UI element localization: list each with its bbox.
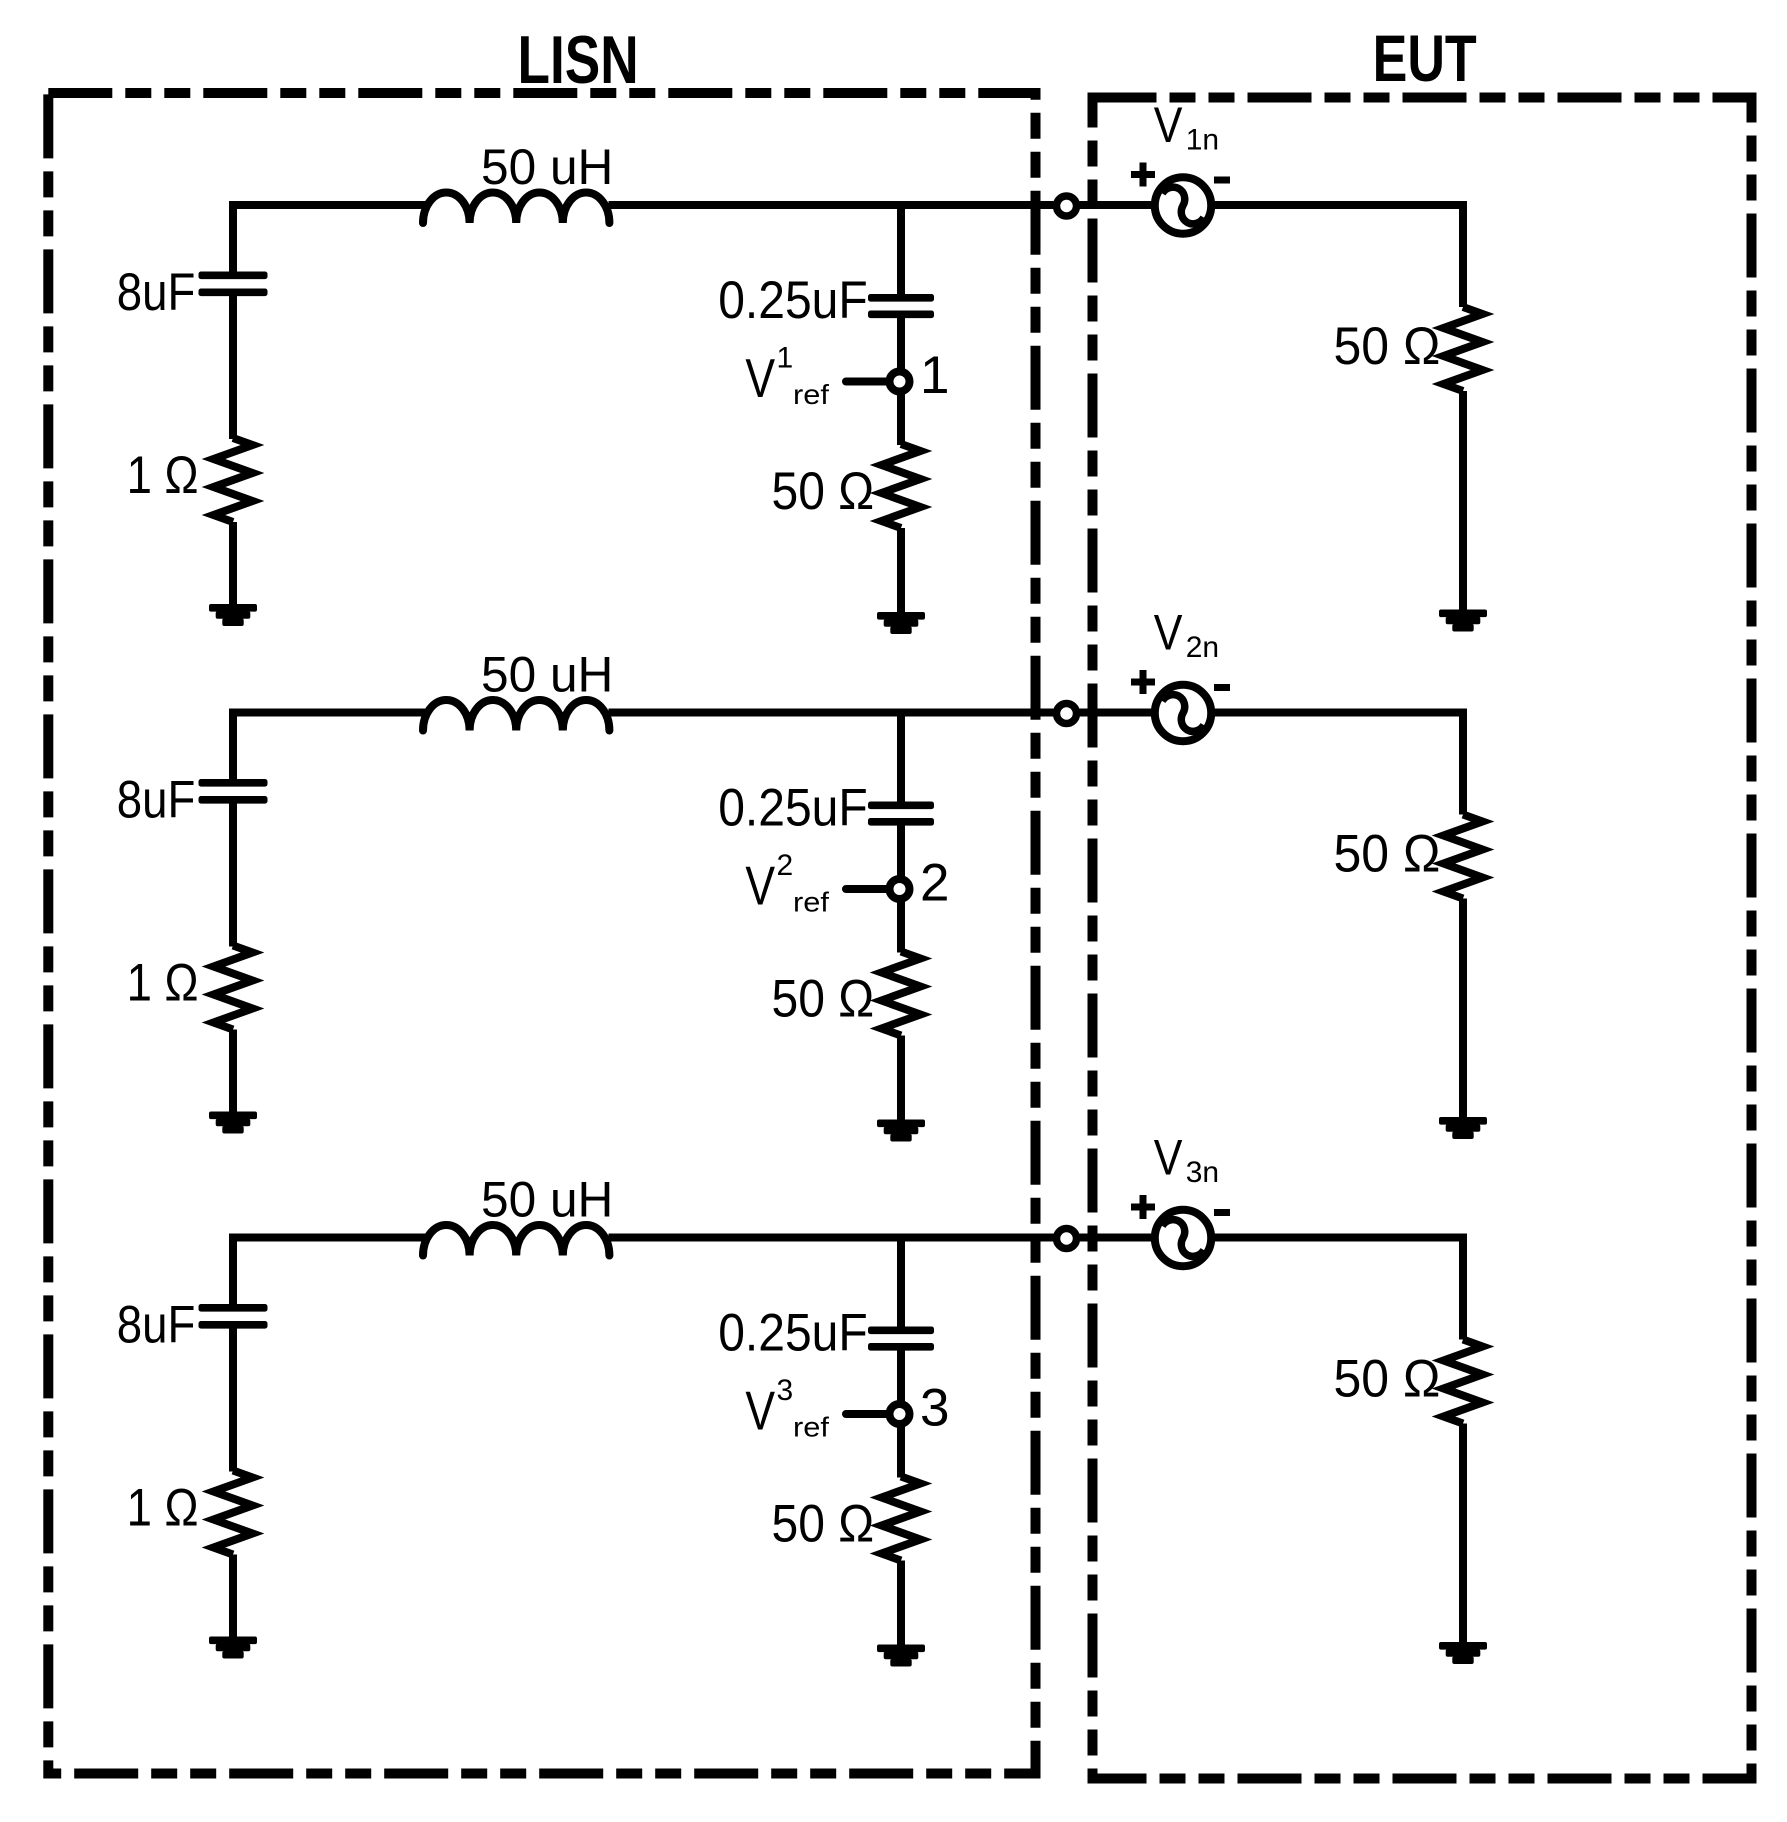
- sine symbol inside source V_3n: [1156, 1215, 1210, 1261]
- ground (left branch, row 2): [209, 1112, 257, 1120]
- resistor 50 Ohm (measurement port, row 1): [882, 444, 921, 528]
- svg-text:2: 2: [777, 849, 794, 882]
- svg-text:50 uH: 50 uH: [481, 646, 613, 702]
- wire row1: 0.25uF capacitor to measurement node: [897, 316, 905, 370]
- svg-text:V: V: [1154, 1129, 1183, 1185]
- resistor 50 Ohm (measurement port, row 3): [882, 1477, 921, 1561]
- wire row1: 1 Ohm resistor to ground: [229, 522, 237, 606]
- svg-text:V: V: [745, 855, 775, 917]
- wire: V3ref tap lead (row 3): [846, 1410, 887, 1418]
- wire row1: middle branch down to 0.25uF capacitor: [897, 201, 905, 296]
- LISN enclosure dashed box: [48, 93, 1035, 1774]
- wire row2: 8uF capacitor to 1 Ohm resistor: [229, 802, 237, 947]
- wire row3: 1 Ohm resistor to ground: [229, 1555, 237, 1639]
- svg-text:8uF: 8uF: [117, 770, 196, 829]
- svg-text:50 Ω: 50 Ω: [772, 968, 875, 1028]
- label + (source positive terminal): [1140, 163, 1147, 187]
- svg-text:50 Ω: 50 Ω: [1334, 1348, 1441, 1408]
- svg-text:V: V: [1154, 97, 1183, 153]
- svg-text:1n: 1n: [1186, 124, 1219, 157]
- svg-text:1: 1: [777, 342, 794, 375]
- resistor 50 Ohm (EUT load, row 2): [1444, 815, 1483, 899]
- ground (EUT side, row 3): [1439, 1642, 1487, 1650]
- wire row2: terminal to noise source: [1080, 709, 1156, 717]
- wire row3: middle branch down to 0.25uF capacitor: [897, 1234, 905, 1329]
- capacitor 8uF (row 2): [199, 779, 268, 787]
- svg-text:0.25uF: 0.25uF: [718, 270, 867, 330]
- svg-text:EUT: EUT: [1373, 21, 1477, 95]
- svg-text:50 uH: 50 uH: [481, 1171, 613, 1227]
- svg-text:3: 3: [777, 1374, 794, 1407]
- wire row3: 0.25uF capacitor to measurement node: [897, 1349, 905, 1403]
- capacitor 0.25uF (row 3): [868, 1327, 934, 1335]
- label - (source negative terminal): [1214, 1209, 1230, 1216]
- svg-text:3n: 3n: [1186, 1156, 1219, 1189]
- wire row1: phase conductor, left segment to inductor: [229, 201, 427, 209]
- wire: V2ref tap lead (row 2): [846, 885, 887, 893]
- wire row2: middle branch down to 0.25uF capacitor: [897, 709, 905, 804]
- label - (source negative terminal): [1214, 177, 1230, 184]
- svg-text:3: 3: [920, 1379, 949, 1438]
- resistor 50 Ohm (EUT load, row 3): [1444, 1340, 1483, 1424]
- wire row1: source to EUT load corner and down: [1211, 205, 1463, 307]
- svg-text:0.25uF: 0.25uF: [718, 777, 867, 837]
- resistor 1 Ohm (row 2): [214, 946, 253, 1030]
- EUT enclosure dashed box: [1093, 98, 1752, 1779]
- svg-text:V: V: [745, 348, 775, 410]
- wire row3: 50 Ohm resistor to ground: [897, 1561, 905, 1647]
- source V_1n (AC noise source circle): [1155, 177, 1211, 233]
- inductor L2 50 uH: [423, 700, 609, 731]
- svg-text:50 Ω: 50 Ω: [1334, 823, 1441, 883]
- source V_3n (AC noise source circle): [1155, 1210, 1211, 1266]
- capacitor 8uF (row 1): [199, 272, 268, 280]
- wire row3: phase conductor from inductor to LISN terminal: [609, 1234, 1054, 1242]
- ground (middle branch, row 1): [877, 612, 925, 620]
- inductor L3 50 uH: [423, 1225, 609, 1256]
- wire row3: phase conductor, left segment to inductor: [229, 1234, 427, 1242]
- svg-text:2n: 2n: [1186, 631, 1219, 664]
- resistor 50 Ohm (EUT load, row 1): [1444, 307, 1483, 391]
- wire row1: 50 Ohm resistor to ground: [897, 528, 905, 614]
- ground (left branch, row 1): [209, 604, 257, 612]
- resistor 1 Ohm (row 3): [214, 1471, 253, 1555]
- label - (source negative terminal): [1214, 684, 1230, 691]
- wire row1: EUT load to ground: [1459, 391, 1467, 611]
- ground (left branch, row 3): [209, 1637, 257, 1645]
- resistor 1 Ohm (row 1): [214, 438, 253, 522]
- svg-text:ref: ref: [793, 887, 830, 918]
- svg-text:0.25uF: 0.25uF: [718, 1302, 867, 1362]
- wire row3: EUT load to ground: [1459, 1424, 1467, 1644]
- svg-text:8uF: 8uF: [117, 1295, 196, 1354]
- svg-text:ref: ref: [793, 379, 830, 410]
- label + (source positive terminal): [1140, 1195, 1147, 1219]
- wire row1: left branch down to 8uF capacitor: [229, 201, 237, 273]
- inductor L1 50 uH: [423, 192, 609, 223]
- ground (EUT side, row 2): [1439, 1117, 1487, 1125]
- terminal node (open circle) at LISN/EUT interface, row 2: [1057, 704, 1077, 724]
- svg-text:2: 2: [920, 854, 949, 913]
- svg-text:1 Ω: 1 Ω: [127, 953, 199, 1012]
- terminal node (open circle) at LISN/EUT interface, row 3: [1057, 1229, 1077, 1249]
- resistor 50 Ohm (measurement port, row 2): [882, 952, 921, 1036]
- wire row3: 8uF capacitor to 1 Ohm resistor: [229, 1327, 237, 1472]
- svg-text:LISN: LISN: [518, 22, 639, 98]
- svg-text:8uF: 8uF: [117, 263, 196, 322]
- svg-text:50 Ω: 50 Ω: [1334, 316, 1441, 376]
- capacitor 0.25uF (row 1): [868, 294, 934, 302]
- svg-text:50 uH: 50 uH: [481, 139, 613, 195]
- source V_2n (AC noise source circle): [1155, 685, 1211, 741]
- capacitor 8uF (row 3): [199, 1304, 268, 1312]
- wire row2: phase conductor from inductor to LISN terminal: [609, 709, 1054, 717]
- wire row1: 8uF capacitor to 1 Ohm resistor: [229, 294, 237, 439]
- sine symbol inside source V_1n: [1156, 183, 1210, 229]
- capacitor 0.25uF (row 2): [868, 802, 934, 810]
- terminal node (open circle) at LISN/EUT interface, row 1: [1057, 196, 1077, 216]
- wire row2: measurement node to 50 Ohm resistor: [897, 901, 905, 953]
- wire row2: EUT load to ground: [1459, 899, 1467, 1119]
- label + (source positive terminal): [1140, 670, 1147, 694]
- wire row1: measurement node to 50 Ohm resistor: [897, 393, 905, 445]
- wire: V1ref tap lead (row 1): [846, 378, 887, 386]
- svg-text:1 Ω: 1 Ω: [127, 446, 199, 505]
- svg-text:50 Ω: 50 Ω: [772, 1493, 875, 1553]
- wire row3: source to EUT load corner and down: [1211, 1238, 1463, 1340]
- ground (EUT side, row 1): [1439, 610, 1487, 618]
- wire row2: 1 Ohm resistor to ground: [229, 1030, 237, 1114]
- wire row2: 50 Ohm resistor to ground: [897, 1036, 905, 1122]
- wire row2: left branch down to 8uF capacitor: [229, 709, 237, 781]
- svg-text:1: 1: [920, 346, 949, 405]
- svg-text:V: V: [1154, 604, 1183, 660]
- svg-text:1 Ω: 1 Ω: [127, 1478, 199, 1537]
- wire row1: phase conductor from inductor to LISN terminal: [609, 201, 1054, 209]
- wire row3: left branch down to 8uF capacitor: [229, 1234, 237, 1306]
- wire row2: 0.25uF capacitor to measurement node: [897, 824, 905, 878]
- wire row3: terminal to noise source: [1080, 1234, 1156, 1242]
- svg-text:50 Ω: 50 Ω: [772, 461, 875, 521]
- ground (middle branch, row 3): [877, 1645, 925, 1653]
- node 3 (measurement tap, open circle): [890, 1404, 910, 1424]
- ground (middle branch, row 2): [877, 1120, 925, 1128]
- wire row3: measurement node to 50 Ohm resistor: [897, 1426, 905, 1478]
- sine symbol inside source V_2n: [1156, 690, 1210, 736]
- wire row1: terminal to noise source: [1080, 201, 1156, 209]
- svg-text:ref: ref: [793, 1412, 830, 1443]
- node 1 (measurement tap, open circle): [890, 372, 910, 392]
- wire row2: source to EUT load corner and down: [1211, 713, 1463, 815]
- node 2 (measurement tap, open circle): [890, 879, 910, 899]
- svg-text:V: V: [745, 1380, 775, 1442]
- wire row2: phase conductor, left segment to inductor: [229, 709, 427, 717]
